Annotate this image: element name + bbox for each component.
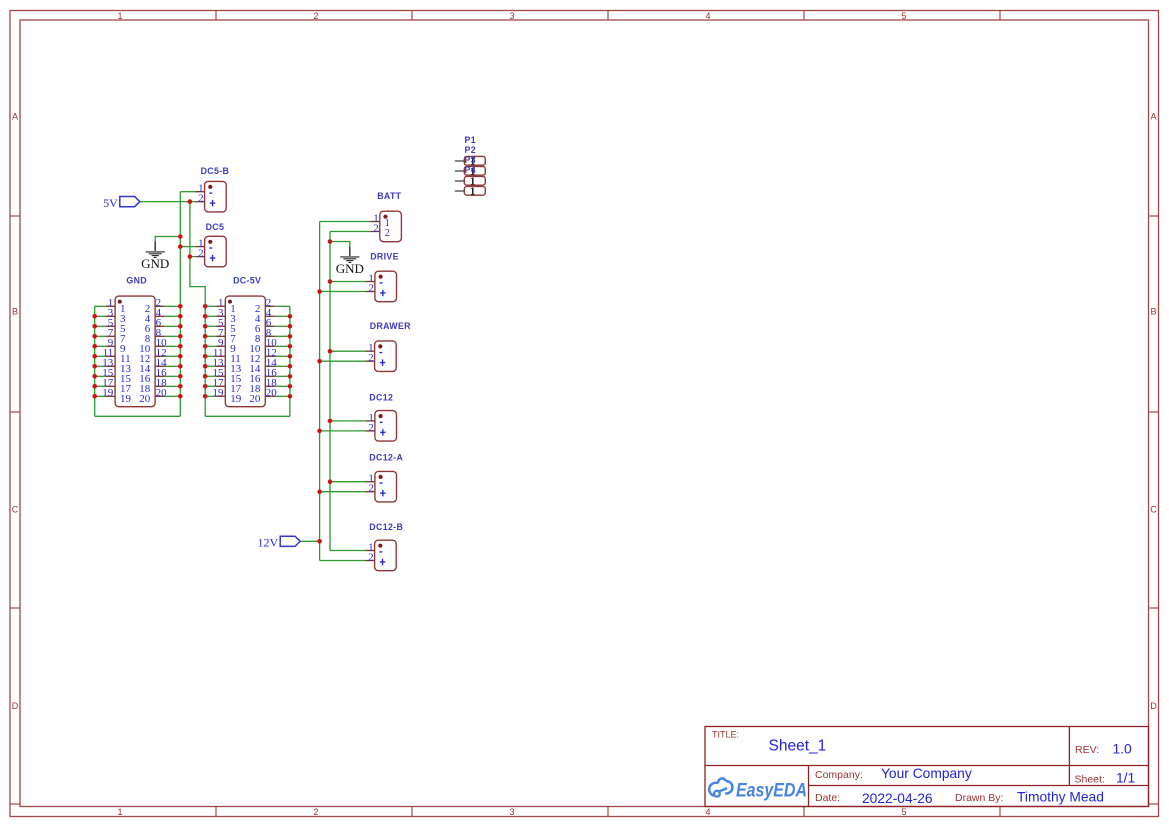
- svg-text:GND: GND: [141, 256, 169, 271]
- svg-text:19: 19: [120, 393, 132, 405]
- svg-text:REV:: REV:: [1075, 744, 1099, 756]
- svg-text:5: 5: [901, 11, 906, 21]
- svg-text:Your Company: Your Company: [881, 766, 972, 781]
- svg-text:Sheet_1: Sheet_1: [769, 738, 827, 755]
- svg-text:19: 19: [102, 387, 114, 399]
- svg-text:5: 5: [901, 807, 906, 817]
- svg-text:1.0: 1.0: [1113, 742, 1133, 757]
- svg-text:2: 2: [373, 223, 379, 235]
- svg-text:20: 20: [266, 387, 278, 399]
- svg-text:DC5-B: DC5-B: [201, 166, 230, 176]
- svg-text:P3: P3: [465, 155, 476, 165]
- svg-text:A: A: [1150, 112, 1156, 122]
- svg-text:P4: P4: [465, 165, 476, 175]
- svg-text:2: 2: [313, 807, 318, 817]
- svg-text:1: 1: [117, 807, 122, 817]
- svg-text:B: B: [1150, 307, 1156, 317]
- svg-text:1/1: 1/1: [1116, 771, 1135, 786]
- svg-text:4: 4: [705, 11, 710, 21]
- svg-text:DC12: DC12: [369, 392, 393, 402]
- svg-text:20: 20: [249, 393, 261, 405]
- svg-text:P2: P2: [465, 145, 476, 155]
- svg-text:19: 19: [213, 387, 225, 399]
- svg-text:19: 19: [230, 393, 242, 405]
- svg-text:2: 2: [368, 352, 374, 364]
- svg-text:2: 2: [368, 422, 374, 434]
- svg-text:TITLE:: TITLE:: [712, 730, 739, 740]
- svg-text:DC12-A: DC12-A: [369, 452, 403, 462]
- svg-text:2: 2: [368, 483, 374, 495]
- svg-text:A: A: [12, 112, 18, 122]
- svg-text:DC12-B: DC12-B: [369, 522, 403, 532]
- svg-text:2: 2: [368, 552, 374, 564]
- svg-text:C: C: [12, 505, 19, 515]
- svg-text:3: 3: [509, 11, 514, 21]
- svg-text:EasyEDA: EasyEDA: [736, 780, 807, 802]
- svg-text:Date:: Date:: [815, 792, 840, 804]
- svg-text:D: D: [12, 701, 19, 711]
- svg-text:2022-04-26: 2022-04-26: [862, 791, 933, 806]
- svg-text:P1: P1: [465, 135, 476, 145]
- svg-text:DRAWER: DRAWER: [370, 321, 411, 331]
- svg-text:DRIVE: DRIVE: [370, 252, 399, 262]
- svg-text:2: 2: [368, 283, 374, 295]
- svg-text:2: 2: [385, 228, 390, 239]
- svg-text:1: 1: [117, 11, 122, 21]
- svg-text:Timothy Mead: Timothy Mead: [1017, 790, 1104, 805]
- svg-text:DC5: DC5: [206, 222, 225, 232]
- svg-text:4: 4: [705, 807, 710, 817]
- svg-text:B: B: [12, 307, 18, 317]
- svg-text:DC-5V: DC-5V: [233, 276, 261, 286]
- svg-text:12V: 12V: [258, 536, 279, 550]
- svg-text:2: 2: [198, 193, 204, 205]
- svg-text:GND: GND: [336, 261, 364, 276]
- svg-text:GND: GND: [126, 276, 147, 286]
- svg-text:20: 20: [139, 393, 151, 405]
- svg-text:Drawn By:: Drawn By:: [955, 792, 1003, 804]
- svg-text:3: 3: [509, 807, 514, 817]
- svg-text:1: 1: [470, 187, 475, 198]
- svg-text:D: D: [1150, 701, 1157, 711]
- svg-text:BATT: BATT: [377, 191, 401, 201]
- svg-text:2: 2: [313, 11, 318, 21]
- svg-text:Company:: Company:: [815, 769, 863, 781]
- svg-text:5V: 5V: [103, 196, 118, 210]
- svg-text:C: C: [1150, 505, 1157, 515]
- svg-text:Sheet:: Sheet:: [1075, 774, 1105, 786]
- svg-text:2: 2: [198, 248, 204, 260]
- svg-text:20: 20: [156, 387, 168, 399]
